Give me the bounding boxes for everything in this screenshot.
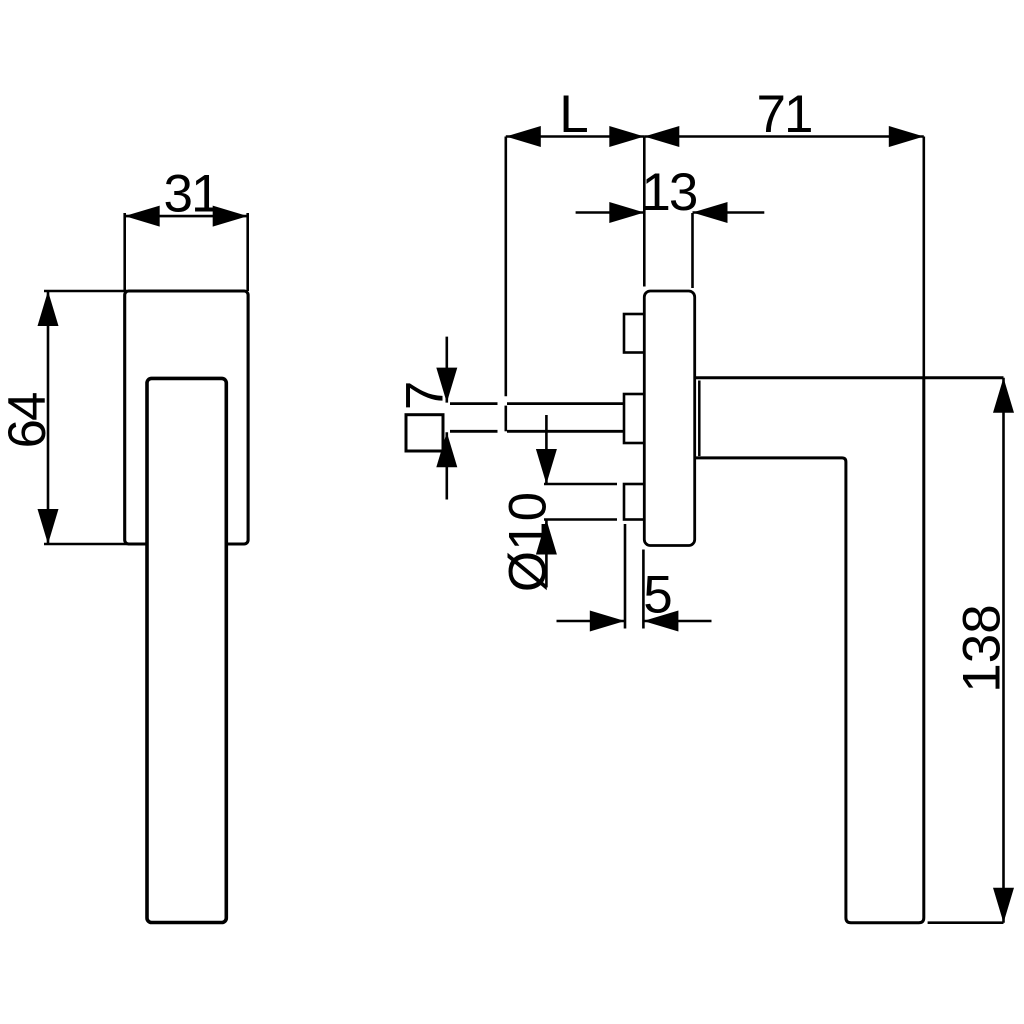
dimension diameter 10 upper arrow line [545, 415, 548, 484]
dimension 138 arrowhead down [993, 888, 1014, 923]
svg-text:5: 5 [643, 565, 671, 624]
dimension diameter 10 extension line top [544, 483, 617, 486]
dimension 5 tail right [643, 620, 711, 623]
dimension L extension line left [504, 137, 507, 397]
dimension 5 arrowhead pointing right [590, 611, 625, 632]
dimension 7 arrowhead up [436, 432, 457, 467]
handle outline (side view) [695, 378, 924, 923]
spindle shaft bottom edge [450, 430, 498, 433]
dimension 71 arrowhead right [889, 126, 924, 147]
dimension 5 extension line left [624, 524, 627, 629]
dimension 31 arrowhead left [125, 206, 160, 227]
dimension 138 arrowhead up [993, 378, 1014, 413]
dimension L arrowhead left [506, 126, 541, 147]
dimension L extension line left lower segment through spindle [504, 406, 507, 432]
dimension 71 arrowhead left [644, 126, 679, 147]
svg-text:Ø10: Ø10 [499, 492, 558, 592]
handle top edge and 138 top extension line [695, 376, 1004, 379]
dimension L line [506, 135, 645, 138]
dimension diameter 10 arrowhead down [536, 449, 557, 484]
dimension 7 arrowhead down [436, 368, 457, 403]
dimension 13 extension line right [691, 213, 694, 288]
screw boss bottom (side view) [624, 484, 644, 520]
dimension 13 arrowhead left pointing right [609, 202, 644, 223]
spindle shaft top edge [450, 402, 498, 405]
dimension 5 tail left [557, 620, 625, 623]
dimension diameter 10 arrowhead up [536, 520, 557, 555]
svg-text:13: 13 [641, 163, 696, 222]
dimension 31 line [125, 215, 248, 218]
dimension 64 extension line bottom [44, 543, 127, 546]
dimension 13 arrowhead right pointing left [693, 202, 728, 223]
dimension 71 line [644, 135, 924, 138]
dimension 64 extension line top [44, 290, 127, 293]
dimension 31 extension line right [246, 213, 249, 291]
screw boss top (side view) [624, 314, 644, 353]
spindle hub (side view) [624, 394, 644, 443]
front view rosette plate [125, 291, 248, 544]
front view handle grip bar [147, 378, 226, 922]
dimension 5 arrowhead pointing left [643, 611, 678, 632]
svg-text:L: L [559, 85, 587, 144]
dimension 64 arrowhead down [38, 509, 59, 544]
dimension 138 line [1002, 378, 1005, 923]
rosette plate (side view) [644, 291, 694, 546]
dimension 31 arrowhead right [213, 206, 248, 227]
handle neck joint line [698, 381, 701, 457]
svg-text:138: 138 [953, 604, 1012, 692]
svg-text:71: 71 [757, 85, 812, 144]
svg-text:7: 7 [396, 383, 455, 410]
dimension diameter 10 lower arrow line [545, 520, 548, 588]
dimension 7 upper arrow line [445, 337, 448, 403]
spindle square end [406, 415, 443, 451]
dimension L arrowhead right [609, 126, 644, 147]
dimension 13 tail left [576, 211, 645, 214]
dimension 64 arrowhead up [38, 291, 59, 326]
dimension 31 extension line left [123, 213, 126, 291]
dimension 5 extension line right [642, 550, 645, 629]
dimension 13 extension line left (shared with L) [643, 137, 646, 287]
dimension 64 line [47, 291, 50, 544]
dimension 71 extension line right [922, 137, 925, 379]
svg-text:64: 64 [0, 393, 57, 448]
dimension 13 tail right [693, 211, 765, 214]
dimension 138 extension line bottom [928, 921, 1004, 924]
dimension 7 lower arrow line [445, 432, 448, 499]
svg-text:31: 31 [164, 165, 219, 224]
dimension diameter 10 extension line bottom [544, 518, 617, 521]
